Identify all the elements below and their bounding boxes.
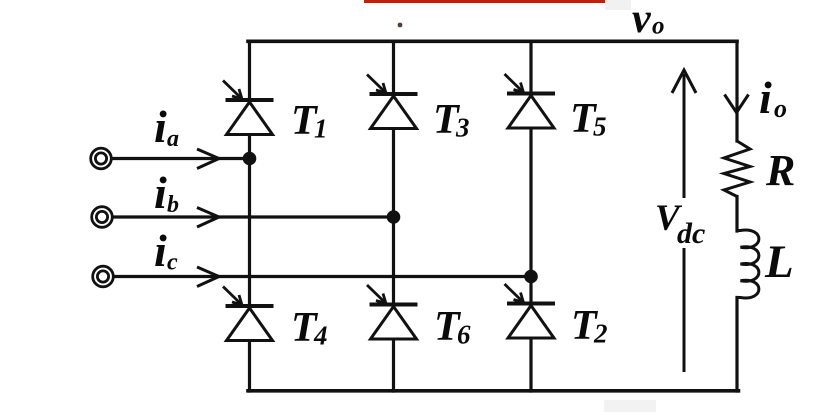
node: junction b (387, 210, 401, 224)
svg-text:R: R (765, 146, 795, 195)
thyristor T5 (505, 74, 556, 128)
svg-text:c: c (167, 250, 178, 276)
grey artifact patch top right (605, 0, 631, 10)
node: junction a (243, 152, 257, 166)
svg-text:3: 3 (455, 113, 470, 143)
label T4 (291, 305, 328, 351)
svg-text:5: 5 (593, 112, 607, 142)
wire: leg 3 vertical (T5/T2) (529, 41, 532, 391)
label T6 (434, 304, 471, 350)
stray dot artifact near node vo (398, 23, 403, 28)
terminal: phase c input (93, 266, 114, 287)
thyristor T3 (367, 75, 418, 129)
label ib (154, 167, 179, 218)
thyristor T2 (505, 284, 556, 338)
label T3 (433, 97, 470, 143)
red annotation line (top) (364, 0, 605, 3)
wire: right load branch (735, 41, 738, 391)
terminal: phase a input (91, 148, 112, 169)
wire: leg 1 vertical (T1/T4) (248, 41, 251, 391)
svg-text:2: 2 (593, 319, 608, 349)
svg-text:o: o (774, 94, 787, 123)
svg-text:v: v (632, 0, 652, 42)
wire: phase c feed (114, 275, 531, 278)
label T5 (570, 96, 607, 142)
wire: bottom negative bus (248, 389, 739, 393)
label vo (632, 0, 665, 42)
svg-text:L: L (764, 236, 794, 288)
svg-text:i: i (154, 101, 167, 152)
label Vdc (650, 198, 707, 250)
wire: top positive bus (node vo) (248, 39, 737, 43)
label T2 (571, 303, 608, 349)
svg-text:dc: dc (677, 217, 705, 250)
label ic (154, 225, 178, 276)
resistor R (724, 141, 750, 197)
arrow: phase a current direction (197, 149, 219, 169)
wire: leg 2 vertical (T3/T6) (392, 41, 395, 391)
svg-text:i: i (759, 72, 772, 123)
svg-text:i: i (154, 225, 167, 276)
svg-text:4: 4 (313, 321, 328, 351)
arrow: io current (down) (725, 95, 749, 113)
thyristor T1 (223, 81, 274, 135)
svg-text:b: b (167, 192, 179, 218)
svg-text:6: 6 (457, 320, 471, 350)
arrow: phase b current direction (197, 208, 219, 228)
svg-text:i: i (154, 167, 167, 218)
label io (759, 72, 787, 123)
arrow: Vdc reference (up) (672, 70, 696, 372)
wire: phase a feed (112, 157, 250, 160)
svg-text:a: a (167, 126, 179, 152)
arrow: phase c current direction (197, 267, 219, 287)
inductor L (736, 230, 759, 298)
thyristor T4 (223, 287, 274, 341)
svg-text:1: 1 (314, 114, 328, 144)
node: junction c (524, 270, 538, 284)
grey artifact patch bottom (604, 400, 656, 412)
wire: phase b feed (113, 215, 394, 218)
label ia (154, 101, 179, 152)
thyristor T6 (367, 285, 418, 339)
svg-text:o: o (652, 13, 665, 40)
terminal: phase b input (92, 207, 113, 228)
label T1 (291, 98, 328, 144)
